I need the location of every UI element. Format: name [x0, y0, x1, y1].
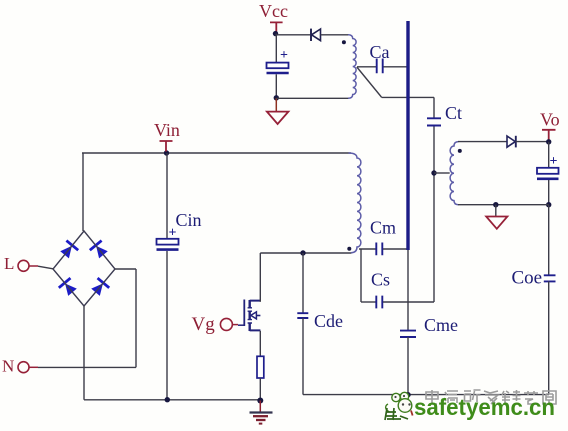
wire Cm left: [359, 248, 376, 250]
wire secondary bottom: [458, 204, 549, 206]
node Vcc: [273, 31, 278, 36]
label Vcc: [259, 1, 288, 21]
Vcc terminal mark: [270, 22, 283, 32]
wire MOSFET drain riser: [259, 253, 261, 302]
diode D6 secondary: [507, 136, 516, 148]
Vo terminal mark: [542, 130, 556, 140]
label Vg: [192, 314, 216, 335]
wire Cin branch lower: [166, 251, 168, 400]
label Cm: [370, 218, 396, 238]
wire drain node to primary winding: [260, 252, 351, 254]
capacitor Ct: [427, 118, 441, 125]
inductor aux winding: [348, 35, 356, 99]
svg-text:+: +: [280, 48, 288, 63]
wire aux winding bottom: [276, 97, 349, 99]
wire Vcc cap branch: [275, 34, 277, 63]
svg-text:Cm: Cm: [370, 218, 396, 238]
label Ca: [370, 42, 390, 62]
svg-text:N: N: [2, 357, 14, 376]
wire Cme branch lower: [407, 337, 409, 395]
label Vo: [540, 110, 560, 130]
label Cin: [176, 210, 202, 230]
ground secondary triangle: [486, 205, 507, 229]
wire tap to secondary winding: [434, 172, 450, 174]
wire Ca right to thick line: [383, 66, 406, 68]
capacitor Cs: [376, 296, 382, 309]
diode bridge D2 top-right: [90, 241, 109, 260]
wire MOSFET source to resistor: [259, 331, 261, 357]
label Ct: [445, 103, 462, 123]
svg-text:Cde: Cde: [314, 311, 343, 331]
node Cin bottom: [165, 397, 170, 402]
terminal N: [18, 362, 38, 373]
wire Cs bottom right riser to Ct: [383, 127, 434, 303]
wire aux diode to winding: [321, 34, 350, 36]
node secondary tap junction: [431, 170, 436, 175]
svg-text:Vin: Vin: [154, 120, 180, 140]
wire aux tap to Ca: [357, 66, 376, 68]
node output bottom: [546, 202, 551, 207]
svg-text:Ca: Ca: [370, 42, 390, 62]
svg-text:Coe: Coe: [512, 268, 543, 289]
wire Cme branch upper: [407, 250, 409, 330]
wire bridge bottom riser and primary bottom rail: [84, 306, 260, 400]
Vin terminal mark: [160, 141, 173, 152]
wire Cin branch upper: [166, 153, 168, 239]
wire bridge top riser: [82, 153, 84, 231]
capacitor Cme: [400, 331, 416, 337]
node aux winding phase dot: [342, 40, 346, 44]
wire secondary top to diode: [458, 141, 507, 143]
node primary ground: [257, 398, 263, 404]
capacitor Cvcc: [267, 48, 289, 73]
svg-text:Vg: Vg: [192, 314, 216, 335]
terminal L: [18, 260, 38, 271]
wire Coe branch upper: [548, 205, 550, 275]
svg-text:+: +: [550, 154, 558, 169]
label Coe: [512, 268, 543, 289]
svg-text:Cme: Cme: [424, 315, 458, 335]
inductor primary winding: [349, 153, 361, 253]
svg-text:Vcc: Vcc: [259, 1, 288, 21]
svg-text:Cin: Cin: [176, 210, 202, 230]
capacitor Co output: [537, 154, 559, 179]
label Cme: [424, 315, 458, 335]
wire Coe branch lower: [548, 281, 550, 394]
watermark icon: [385, 392, 413, 420]
label Cde: [314, 311, 343, 331]
node Cme rail junction: [405, 392, 410, 397]
capacitor Cde: [297, 313, 308, 318]
svg-text:L: L: [4, 254, 14, 273]
diode D5 aux: [311, 29, 321, 41]
svg-text:Cs: Cs: [371, 270, 390, 290]
label Cs: [371, 270, 390, 290]
wire Cm right to thick line: [383, 248, 407, 250]
svg-text:Ct: Ct: [445, 103, 462, 123]
label Vin: [154, 120, 180, 140]
wire shield thick line: [406, 21, 409, 250]
capacitor Cin: [157, 226, 179, 250]
capacitor Coe: [544, 275, 556, 281]
inductor secondary winding: [450, 142, 458, 205]
capacitor Ca: [377, 59, 383, 74]
wire Cs bottom left: [361, 301, 376, 303]
wire aux tap diagonal: [357, 67, 382, 97]
node secondary winding phase dot: [458, 149, 462, 153]
diode bridge D1 top-left: [59, 241, 78, 260]
node aux ground: [274, 95, 279, 100]
wire N to bridge right vertex: [38, 269, 136, 367]
wire resistor to ground: [259, 378, 261, 401]
node secondary ground junction: [493, 202, 498, 207]
svg-text:Vo: Vo: [540, 110, 560, 130]
watermark safetyemc.cn text: [414, 394, 555, 420]
label N: [2, 357, 14, 376]
wire Vcc cap to ground node: [275, 74, 277, 98]
ground aux triangle: [267, 98, 289, 124]
wire diagonal to Ct horizontal: [382, 97, 434, 117]
node Vin: [164, 150, 169, 155]
node Cde junction: [300, 250, 305, 255]
diode bridge D4 bottom-right: [90, 278, 109, 297]
capacitor Cm: [376, 243, 382, 256]
node primary winding phase dot: [347, 247, 351, 251]
terminal Vg: [220, 318, 238, 330]
wire Cde branch lower and secondary bottom rail: [303, 318, 549, 395]
transistor Q1 MOSFET: [238, 300, 260, 332]
wire Vo to output cap: [548, 142, 550, 168]
node Vo: [546, 139, 551, 144]
wire L to bridge: [38, 266, 53, 269]
wire Vcc node to diode: [276, 34, 311, 36]
svg-text:safetyemc.cn: safetyemc.cn: [414, 394, 555, 420]
wire Vin top rail: [82, 152, 351, 154]
label L: [4, 254, 14, 273]
wire diode to Vo node: [516, 141, 549, 143]
ground primary earth: [250, 401, 273, 424]
watermark chinese gray text: [426, 390, 556, 404]
resistor Rs: [257, 356, 264, 378]
wire Cs left vertical: [360, 249, 362, 302]
diode bridge D3 bottom-left: [59, 278, 78, 297]
wire output cap lower: [548, 180, 550, 205]
bridge diamond outline: [53, 231, 115, 306]
wire Cde branch upper: [302, 253, 304, 313]
